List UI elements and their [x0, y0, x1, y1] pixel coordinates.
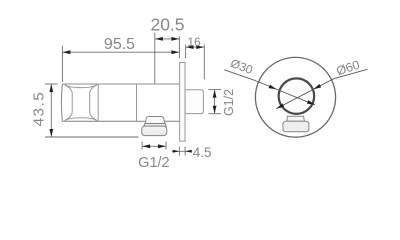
knob right edge divider	[97, 84, 99, 121]
dimension 4.5 line	[172, 150, 193, 152]
dimension G1/2 bottom left arrow	[142, 144, 150, 148]
dimension 4.5 right arrow	[185, 150, 191, 153]
leader Ø60 arrow on circle	[313, 84, 321, 89]
dimension G1/2 right top arrow	[213, 90, 217, 98]
dimension 95.5 right arrow	[171, 50, 179, 54]
dimension 16 line	[186, 46, 205, 48]
dimension 43.5 top tick	[45, 83, 58, 85]
dimension G1/2 bottom ticks	[141, 142, 143, 150]
leader Ø30 end arrow	[307, 100, 315, 105]
front view inner circle (Ø30 outlet ring)	[279, 78, 315, 114]
dimension 95.5 left arrow	[63, 50, 71, 54]
svg-text:95.5: 95.5	[104, 36, 135, 53]
svg-text:Ø60: Ø60	[335, 58, 362, 79]
dimension G1/2 right ticks	[209, 89, 222, 91]
leader line Ø30	[224, 70, 314, 105]
svg-text:G1/2: G1/2	[138, 155, 169, 171]
svg-text:43.5: 43.5	[31, 91, 48, 127]
wall pipe (G1/2 connector)	[185, 90, 203, 114]
dimension G1/2 bottom right arrow	[158, 144, 166, 148]
front view big circle (flange Ø60)	[255, 57, 335, 137]
knob top concave arc	[65, 85, 97, 88]
spout cap	[142, 126, 167, 136]
dimension 43.5 bottom tick	[45, 136, 139, 138]
front view cap	[283, 121, 309, 132]
dimension 95.5 line	[62, 51, 179, 53]
knob right waist curve	[90, 85, 97, 121]
extension line body left	[61, 46, 63, 82]
dimension G1/2 right line	[214, 90, 216, 114]
extension line wall face	[178, 36, 180, 58]
knob left waist curve	[65, 85, 73, 121]
dimension G1/2 right bottom arrow	[213, 106, 217, 114]
body section divider	[136, 84, 138, 121]
svg-text:G1/2: G1/2	[222, 89, 236, 116]
spout collar	[144, 124, 166, 127]
dimension 43.5 bottom arrow	[49, 129, 53, 137]
dimension 20.5 right arrow	[171, 37, 179, 41]
dimension 20.5 line	[155, 38, 180, 40]
dimension 20.5 left arrow	[155, 37, 163, 41]
extension line spout center	[154, 33, 156, 84]
dimension 4.5 left arrow	[173, 150, 179, 153]
knob bottom concave arc	[65, 118, 97, 121]
dimension 16 right arrow	[196, 45, 204, 49]
leader line Ø60	[276, 69, 367, 108]
dimension 16 left arrow	[186, 45, 194, 49]
extension line flange back	[185, 45, 187, 59]
svg-text:4.5: 4.5	[193, 145, 212, 160]
dimension 43.5 line	[50, 84, 52, 137]
svg-text:16: 16	[187, 35, 201, 49]
svg-text:20.5: 20.5	[150, 15, 184, 35]
front view neck	[287, 116, 305, 121]
dimension 4.5 ticks	[178, 147, 180, 156]
body outline (side view cylinder)	[61, 84, 179, 121]
spout dome	[145, 117, 164, 124]
svg-text:Ø30: Ø30	[229, 56, 255, 77]
wall flange plate	[180, 63, 185, 142]
dimension 43.5 top arrow	[49, 84, 53, 92]
extension line pipe end	[203, 45, 205, 80]
dimension G1/2 bottom line	[142, 145, 166, 147]
leader Ø60 end arrow	[276, 103, 284, 108]
leader Ø30 arrow on circle	[269, 85, 277, 90]
